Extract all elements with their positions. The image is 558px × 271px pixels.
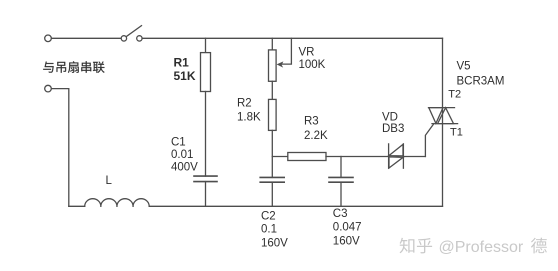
svg-text:L: L [106,175,113,187]
svg-text:T1: T1 [450,127,463,139]
svg-text:VR: VR [299,47,315,59]
svg-text:400V: 400V [171,162,198,174]
svg-text:2.2K: 2.2K [304,130,328,142]
svg-text:1.8K: 1.8K [237,112,261,124]
svg-text:DB3: DB3 [382,123,404,135]
svg-text:V5: V5 [457,61,471,73]
svg-text:BCR3AM: BCR3AM [457,76,505,88]
svg-text:@Professor: @Professor [439,239,524,256]
svg-text:100K: 100K [299,59,326,71]
svg-text:VD: VD [382,112,398,124]
svg-text:0.1: 0.1 [261,224,277,236]
svg-text:R2: R2 [237,97,252,109]
svg-text:R1: R1 [174,56,190,70]
svg-text:C1: C1 [171,136,186,148]
svg-text:160V: 160V [261,238,288,250]
svg-text:R3: R3 [304,115,319,127]
svg-text:160V: 160V [333,236,360,248]
svg-text:T2: T2 [448,88,461,100]
svg-text:C3: C3 [333,208,348,220]
svg-text:0.01: 0.01 [171,149,193,161]
svg-text:C2: C2 [261,211,276,223]
svg-text:0.047: 0.047 [333,221,362,233]
svg-text:51K: 51K [174,69,196,83]
